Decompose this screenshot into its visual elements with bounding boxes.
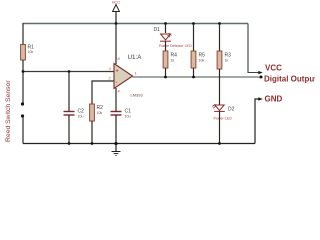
wire: op-amp pin 8 supply line [115, 24, 117, 65]
wire: left rail lower segment [22, 116, 24, 144]
junction: top rail / D1 column [164, 22, 167, 25]
op-amp U1:A [114, 64, 133, 89]
svg-text:Reed Switch Sensor: Reed Switch Sensor [5, 80, 12, 142]
wire: R2 column lower [91, 121, 93, 144]
svg-text:10u: 10u [78, 115, 84, 119]
ground symbol [112, 152, 121, 156]
capacitor C2 [64, 112, 75, 116]
resistor R3 [217, 51, 222, 69]
junction: R5 / output net [192, 76, 195, 79]
capacitor C1 [111, 112, 122, 116]
reed switch terminal node (bottom) [21, 114, 24, 117]
wire: bottom ground rail [23, 143, 255, 145]
junction: +input wire / C2 column [68, 70, 71, 73]
wire: D1 anode lead [165, 24, 167, 34]
wire: R3 to D2 (crosses output net) [219, 69, 221, 105]
junction: C1 column / ground rail [114, 142, 117, 145]
svg-text:1k: 1k [171, 59, 175, 63]
svg-text:Power LED: Power LED [214, 117, 233, 121]
wire: D1 cathode to R4 [165, 41, 167, 51]
wire: top-right drop to VCC terminal [248, 24, 259, 73]
svg-text:VCC: VCC [265, 63, 282, 72]
junction: D2 / ground rail [218, 142, 221, 145]
svg-text:10u: 10u [125, 115, 131, 119]
svg-text:10k: 10k [28, 50, 34, 54]
wire: C1 column lower [115, 115, 117, 152]
wire: left rail upper segment [22, 23, 24, 45]
resistor R2 [90, 104, 95, 121]
wire: R5 to output net [193, 68, 195, 77]
junction: top rail / pin8 column [115, 22, 118, 25]
svg-text:U1:A: U1:A [128, 54, 143, 61]
svg-text:+: + [116, 69, 119, 75]
D2 LED arrows [212, 104, 215, 108]
junction: left rail / +input wire [22, 70, 25, 73]
reed switch terminal node (top) [21, 102, 24, 105]
svg-text:1k: 1k [225, 59, 229, 63]
resistor R5 [191, 51, 196, 68]
svg-text:D2: D2 [228, 107, 235, 113]
junction: top rail / R5 column [192, 22, 195, 25]
wire: top VCC rail [23, 23, 248, 25]
node Digital Output terminal dot [260, 76, 263, 79]
junction: top rail / R3 column [218, 22, 221, 25]
wire: non-inverting input net (left to op-amp pin 3) [23, 71, 114, 73]
wire: inverting input stub to R2 column [92, 81, 114, 104]
diode D1 (LED) [160, 34, 171, 41]
wire: C2 column upper [68, 72, 70, 112]
wire: C2 column lower [68, 115, 70, 144]
D1 LED arrows [168, 33, 172, 37]
wire: R3 upper lead [219, 24, 221, 52]
svg-text:GND: GND [265, 95, 283, 104]
resistor R1 [21, 45, 26, 61]
junction: C2 / ground rail [68, 142, 71, 145]
svg-text:10k: 10k [199, 59, 205, 63]
wire: R5 upper lead [193, 24, 195, 52]
wire: R4 to output net [165, 68, 167, 77]
svg-text:10k: 10k [97, 111, 103, 115]
wire: ground rail riser to GND terminal [255, 99, 259, 144]
resistor R4 [163, 51, 168, 68]
wire: D2 cathode to ground rail [219, 111, 221, 143]
wire: op-amp pin 4 / C1 column upper [115, 88, 117, 112]
svg-text:LM393: LM393 [131, 93, 144, 98]
power symbol VCC (top) [113, 5, 120, 24]
svg-text:Flame Detector LED: Flame Detector LED [159, 44, 192, 48]
diode D2 (LED) [214, 105, 225, 111]
svg-text:D1: D1 [154, 27, 161, 33]
wire: left rail mid segment [22, 60, 24, 104]
wire: comparator output net (to Digital Output) [133, 76, 262, 78]
power terminal VCC (right) arrowhead [258, 71, 263, 74]
junction: R4 / output net [164, 76, 167, 79]
node GND terminal arrowhead [258, 97, 263, 100]
svg-text:VCC: VCC [112, 0, 121, 5]
svg-text:-: - [116, 80, 118, 86]
junction: R2 / ground rail [91, 142, 94, 145]
svg-text:Digital Output: Digital Output [264, 75, 315, 84]
